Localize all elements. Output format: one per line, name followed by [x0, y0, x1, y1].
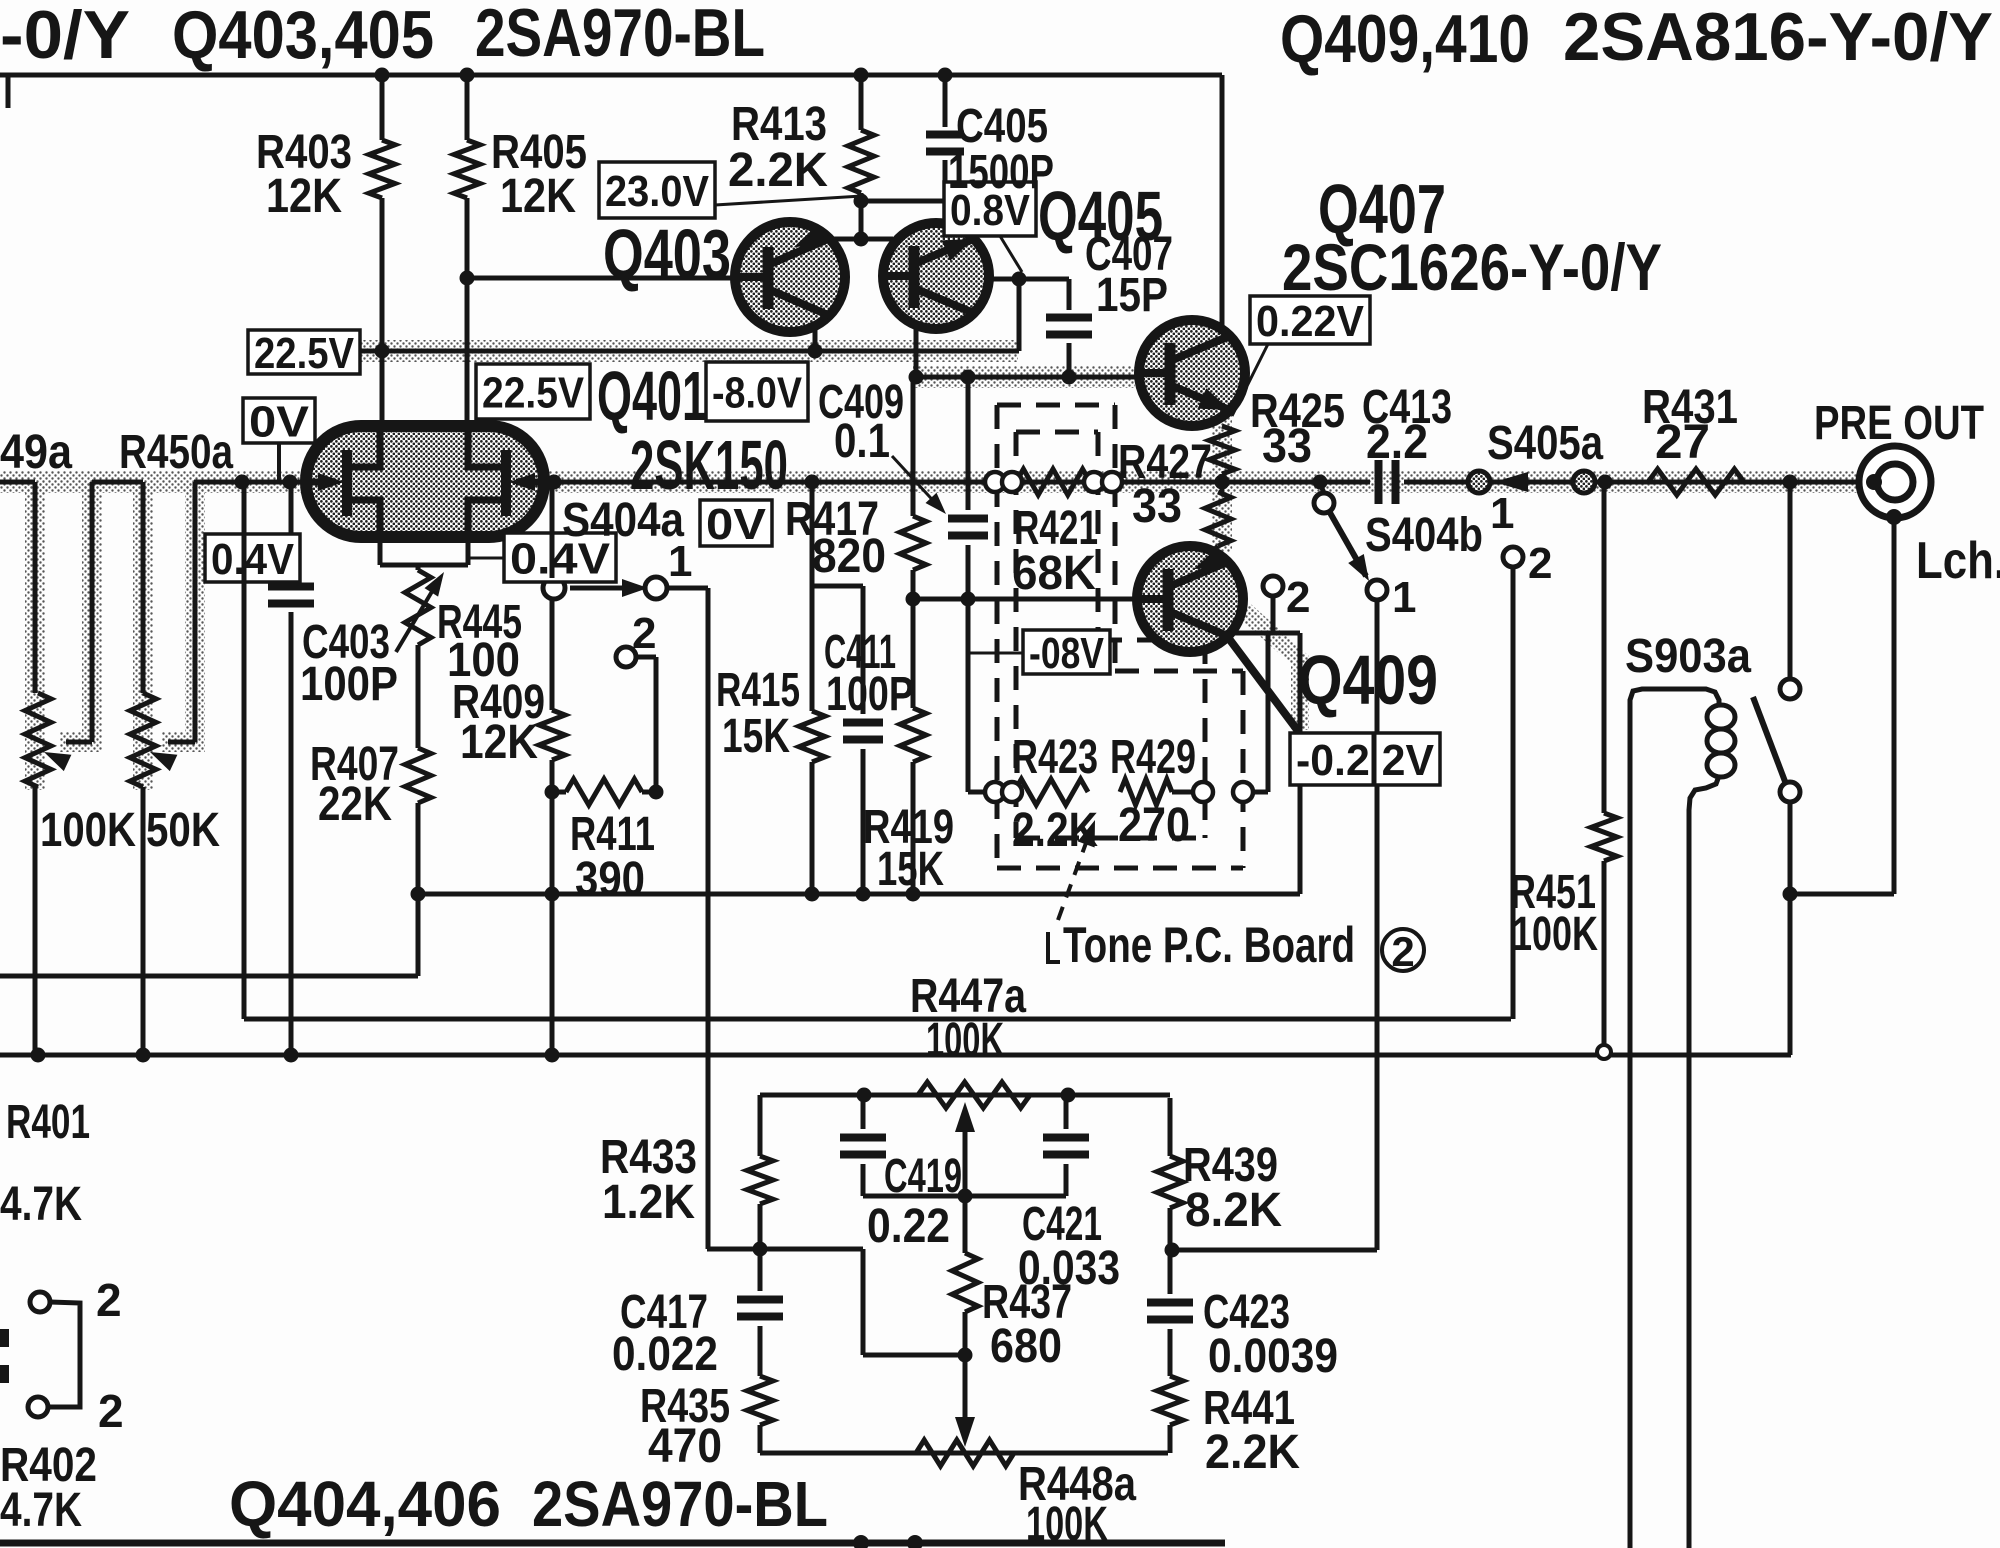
svg-text:0.022: 0.022: [612, 1328, 718, 1381]
svg-text:2: 2: [98, 1385, 124, 1437]
svg-text:15K: 15K: [877, 843, 944, 896]
svg-text:C419: C419: [884, 1150, 962, 1203]
svg-text:270: 270: [1118, 799, 1190, 852]
svg-text:27: 27: [1655, 416, 1710, 469]
svg-text:15K: 15K: [722, 710, 790, 763]
svg-text:4.7K: 4.7K: [0, 1484, 82, 1537]
svg-text:Tone P.C. Board: Tone P.C. Board: [1063, 917, 1355, 973]
svg-text:2.2K: 2.2K: [1205, 1426, 1300, 1479]
svg-text:12K: 12K: [266, 170, 342, 223]
svg-text:2SA816-Y-0/Y: 2SA816-Y-0/Y: [1563, 0, 1993, 75]
svg-text:Q409: Q409: [1298, 641, 1438, 719]
svg-text:0V: 0V: [249, 397, 310, 446]
svg-text:1: 1: [1490, 489, 1514, 538]
svg-text:33: 33: [1262, 420, 1312, 473]
svg-text:390: 390: [575, 853, 645, 906]
svg-text:100K: 100K: [1026, 1498, 1108, 1548]
svg-text:2.2: 2.2: [1366, 416, 1428, 469]
svg-text:Lch.: Lch.: [1916, 532, 2000, 590]
svg-text:0V: 0V: [706, 500, 767, 549]
svg-text:S903a: S903a: [1625, 630, 1751, 683]
svg-text:R401: R401: [6, 1096, 90, 1149]
svg-text:50K: 50K: [146, 804, 220, 857]
svg-text:100K: 100K: [1512, 908, 1598, 961]
svg-text:4.7K: 4.7K: [0, 1178, 82, 1231]
svg-text:23.0V: 23.0V: [605, 167, 710, 216]
svg-text:22.5V: 22.5V: [254, 329, 355, 378]
svg-text:680: 680: [990, 1320, 1062, 1373]
svg-text:1: 1: [1392, 573, 1416, 622]
svg-text:Q404,406: Q404,406: [229, 1468, 501, 1540]
svg-text:R423: R423: [1012, 731, 1098, 784]
svg-text:68K: 68K: [1012, 547, 1096, 600]
svg-text:2.2K: 2.2K: [728, 144, 828, 197]
svg-text:Q403: Q403: [603, 215, 731, 293]
svg-text:-0/Y: -0/Y: [0, 0, 130, 73]
svg-text:470: 470: [648, 1420, 722, 1473]
svg-text:0.0039: 0.0039: [1208, 1330, 1338, 1383]
svg-text:Q409,410: Q409,410: [1280, 1, 1530, 77]
svg-text:12K: 12K: [500, 170, 576, 223]
svg-text:S404a: S404a: [562, 494, 684, 547]
svg-text:2SK150: 2SK150: [630, 426, 788, 504]
svg-text:100K: 100K: [40, 804, 136, 857]
svg-text:2: 2: [1528, 539, 1552, 588]
svg-text:100P: 100P: [300, 658, 398, 711]
svg-text:12K: 12K: [460, 716, 538, 769]
svg-text:R429: R429: [1110, 731, 1196, 784]
svg-text:33: 33: [1132, 480, 1182, 533]
svg-text:22.5V: 22.5V: [482, 368, 585, 417]
svg-text:PRE OUT: PRE OUT: [1814, 397, 1984, 450]
svg-text:-0.2 2V: -0.2 2V: [1296, 736, 1435, 785]
svg-text:S405a: S405a: [1487, 417, 1603, 470]
svg-text:0.22V: 0.22V: [1256, 297, 1365, 346]
svg-text:2SA970-BL: 2SA970-BL: [475, 0, 765, 71]
svg-text:1.2K: 1.2K: [602, 1176, 695, 1229]
svg-text:49a: 49a: [0, 426, 72, 479]
svg-text:2.2K: 2.2K: [1012, 804, 1098, 857]
svg-text:-8.0V: -8.0V: [712, 368, 803, 417]
svg-text:100P: 100P: [826, 668, 914, 721]
svg-text:S404b: S404b: [1365, 509, 1483, 562]
svg-text:2: 2: [1391, 928, 1414, 975]
svg-text:R450a: R450a: [119, 426, 233, 479]
svg-text:15P: 15P: [1096, 269, 1168, 322]
svg-text:0.1: 0.1: [834, 415, 890, 468]
svg-text:2: 2: [1286, 573, 1310, 622]
svg-text:8.2K: 8.2K: [1185, 1184, 1282, 1237]
svg-text:-08V: -08V: [1029, 629, 1105, 678]
svg-text:2SC1626-Y-0/Y: 2SC1626-Y-0/Y: [1282, 230, 1662, 304]
svg-text:Q403,405: Q403,405: [172, 0, 434, 73]
svg-text:100K: 100K: [926, 1014, 1004, 1067]
svg-text:0.22: 0.22: [867, 1200, 950, 1253]
svg-text:2SA970-BL: 2SA970-BL: [532, 1468, 828, 1540]
svg-text:2: 2: [96, 1274, 122, 1326]
svg-text:22K: 22K: [318, 778, 392, 831]
svg-text:2: 2: [632, 609, 656, 658]
svg-text:1: 1: [668, 537, 692, 586]
svg-text:820: 820: [812, 530, 886, 583]
svg-text:0.4V: 0.4V: [211, 535, 295, 584]
svg-text:Q401: Q401: [597, 357, 707, 435]
